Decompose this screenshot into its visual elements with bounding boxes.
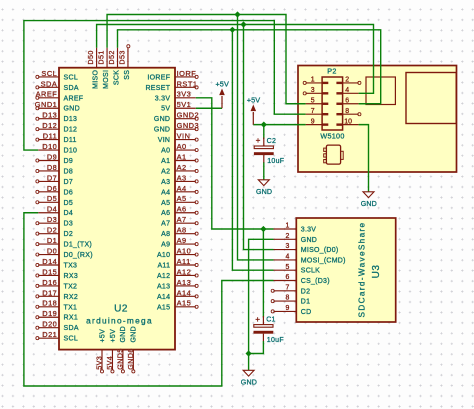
svg-text:3.3V: 3.3V [301,226,316,233]
power GND symbol (C2) [256,180,272,196]
svg-text:W5100: W5100 [320,132,344,141]
power GND symbol (C1/U3 GND) [241,370,257,386]
net label RST1 [177,79,198,88]
net label A15 [177,299,192,308]
wire 3V3: U2 3.3V to U3 pin 1 [196,98,274,229]
svg-text:D52: D52 [107,50,116,64]
U2 left pin D6 [36,189,73,196]
svg-text:D7: D7 [47,173,57,182]
svg-text:A6: A6 [177,205,187,214]
net label 3V3 [177,90,192,99]
svg-text:SCL: SCL [64,74,79,81]
U2 left pin RX3 [36,273,78,280]
P2 pin 8 [336,108,361,116]
svg-text:A5: A5 [177,194,187,203]
U2 right pin A7 [161,221,198,228]
junction D52/SCK [229,27,235,33]
svg-text:8: 8 [285,295,289,302]
svg-text:GND5: GND5 [116,348,125,370]
wire SCK branch to U3 pin 5 [232,30,273,270]
net label A3 [177,173,187,182]
U2 left pin TX3 [36,262,77,269]
svg-text:5: 5 [285,264,289,271]
U2 bottom pin GND2 [120,326,127,373]
svg-text:A3: A3 [177,173,187,182]
svg-text:GND: GND [154,127,170,134]
U3 pin 3 MISO_(D0) [274,243,339,254]
svg-text:SDA: SDA [64,325,79,332]
U2 left pin D0_(RX) [36,252,93,259]
svg-text:3: 3 [311,87,315,94]
svg-text:9: 9 [311,118,315,125]
net label A4 [177,184,187,193]
U2 right pin A2 [161,168,198,175]
svg-text:GND: GND [301,237,317,244]
svg-text:D4: D4 [47,205,57,214]
U2 left pin D13 [36,116,77,123]
svg-text:D1: D1 [301,299,310,306]
svg-text:D53: D53 [117,50,126,64]
P2 pin 10 [336,118,358,126]
svg-text:D0: D0 [47,246,57,255]
net label GND6 [126,348,135,370]
svg-text:D3: D3 [64,221,74,228]
U3 pin 2 GND [274,233,318,244]
svg-text:6: 6 [345,97,349,104]
P2 reference P2 [327,66,337,75]
svg-text:A4: A4 [177,184,187,193]
svg-text:D2: D2 [301,288,310,295]
net label D51 [96,50,105,64]
U3 pin 6 CS_(D3) [274,274,330,285]
svg-text:D16: D16 [42,278,57,287]
svg-text:A1: A1 [177,152,187,161]
net label D17 [42,288,57,297]
wire +5V rail to P2 pin 9 [253,124,305,126]
U2 left pin GND [36,106,80,113]
svg-text:D5: D5 [64,200,74,207]
svg-text:10uF: 10uF [267,337,284,344]
U2 right pin A5 [161,200,198,207]
svg-text:SDA: SDA [64,85,79,92]
svg-text:D12: D12 [42,121,57,130]
net label A13 [177,278,192,287]
svg-text:MOSI_(CMD): MOSI_(CMD) [301,257,346,264]
svg-text:RX1: RX1 [64,315,79,322]
wire P2 pin 10 to GND [359,125,369,192]
U3 pin 1 3.3V [274,223,317,234]
svg-text:SCL: SCL [64,336,79,343]
svg-text:GND: GND [256,188,272,196]
U3 pin 8 D1 [271,295,310,306]
wire D51/MOSI: U2 D51 to P2 pin 5 [107,15,306,104]
svg-text:A11: A11 [177,257,191,266]
svg-text:4: 4 [285,254,289,261]
U2 right pin A3 [161,179,198,186]
net label D9 [47,152,57,161]
U2 left pin RX2 [36,294,78,301]
IC U3 SDCard-WaveShare body [296,218,395,322]
U2 bottom pin +5V0 [99,329,106,373]
svg-text:IORF: IORF [177,69,197,78]
svg-text:3V3: 3V3 [177,90,192,99]
U2 reference U2 [114,304,128,315]
net label 5V3 [95,356,104,370]
svg-text:A10: A10 [157,252,170,259]
U2 left pin SCL [36,74,78,81]
U2 left pin D1_(TX) [36,242,92,249]
svg-text:A14: A14 [177,288,192,297]
U2 left pin D10 [38,148,77,155]
svg-text:RST1: RST1 [177,79,198,88]
svg-text:7: 7 [311,108,315,115]
svg-text:D20: D20 [42,320,57,329]
svg-text:D10: D10 [64,148,78,155]
svg-text:MISO: MISO [93,70,100,89]
svg-text:VIN: VIN [177,132,191,141]
svg-text:A12: A12 [177,267,192,276]
W5100 module chip graphic [324,145,344,164]
svg-text:A10: A10 [177,246,192,255]
U2 top pin SS [124,45,131,80]
svg-text:4: 4 [345,87,349,94]
P2 pin 2 [336,77,361,85]
svg-text:U2: U2 [114,304,128,315]
U3 reference U3 [371,265,382,279]
svg-text:A1: A1 [161,158,170,165]
U3 pin 7 D2 [271,284,310,295]
svg-text:7: 7 [285,284,289,291]
net label A10 [177,246,192,255]
net label D52 [107,50,116,64]
U3 value SDCard-WaveShare [357,222,366,318]
U2 left pin SDA [36,85,79,92]
P2 pin 4 [336,87,358,95]
net label D8 [47,163,57,172]
svg-text:arduino-mega: arduino-mega [86,316,153,326]
svg-text:+: + [256,136,261,145]
svg-text:D7: D7 [64,179,74,186]
P2 pin 6 [336,97,358,105]
wire U3 pin 2 GND down [249,239,274,370]
svg-text:GND: GND [154,116,170,123]
U2 right pin A13 [157,283,198,290]
svg-text:9: 9 [285,305,289,312]
svg-text:CS_(D3): CS_(D3) [301,278,330,285]
svg-text:8: 8 [345,108,349,115]
svg-text:GND: GND [241,379,257,387]
svg-text:D19: D19 [42,309,57,318]
svg-text:A14: A14 [157,294,170,301]
svg-text:A4: A4 [161,189,170,196]
U2 right pin A11 [157,262,198,269]
W5100 module large rectangle [406,73,456,124]
svg-text:1: 1 [285,223,289,230]
net label D4 [47,205,57,214]
junction D50/MISO [240,21,246,27]
svg-text:MISO_(D0): MISO_(D0) [301,247,339,254]
U2 right pin A9 [161,242,198,249]
capacitor C1 10uF [254,315,284,344]
svg-text:A2: A2 [177,163,187,172]
wire 5V1 to +5V flag [196,107,222,109]
power +5V flag (5V1) [215,80,229,109]
svg-text:A12: A12 [157,273,170,280]
svg-text:5V: 5V [161,106,170,113]
net label D50 [86,50,95,64]
svg-text:D50: D50 [86,50,95,64]
net label D53 [117,50,126,64]
svg-text:SCK: SCK [114,70,121,85]
svg-text:D2: D2 [47,226,57,235]
U2 left pin D5 [36,200,73,207]
net label D1 [47,236,57,245]
U2 bottom pin GND3 [131,326,138,373]
svg-text:D15: D15 [42,267,57,276]
svg-text:D11: D11 [64,137,77,144]
svg-text:A15: A15 [157,304,170,311]
svg-text:D14: D14 [42,257,57,266]
W5100 module small rectangle [366,77,395,105]
IC U2 arduino-mega body [59,68,175,350]
net label A1 [177,152,187,161]
net label A7 [177,215,187,224]
U2 right pin VIN [158,137,198,144]
P2 pin 7 [306,108,329,116]
svg-text:GND: GND [64,106,80,113]
svg-text:A15: A15 [177,299,192,308]
svg-text:D6: D6 [47,184,57,193]
svg-text:SDA: SDA [41,79,58,88]
svg-text:D2: D2 [64,231,74,238]
svg-text:IOREF: IOREF [147,74,170,81]
svg-text:D1_(TX): D1_(TX) [64,242,93,249]
svg-text:GND6: GND6 [126,348,135,370]
net label D2 [47,226,57,235]
net label D11 [43,132,58,141]
U2 right pin A0 [161,148,198,155]
U2 right pin A12 [157,273,198,280]
svg-text:D3: D3 [47,215,57,224]
svg-text:D21: D21 [42,330,57,339]
svg-text:C2: C2 [267,138,277,145]
svg-text:D11: D11 [43,132,58,141]
U2 left pin D12 [36,127,77,134]
svg-text:A6: A6 [161,210,170,217]
svg-text:D8: D8 [47,163,57,172]
U2 right pin A8 [161,231,198,238]
U2 right pin A4 [161,189,198,196]
net label D6 [47,184,57,193]
svg-text:SCL: SCL [41,69,57,78]
net label AREF [36,90,58,99]
net label 5V4 [105,356,114,370]
svg-text:TX1: TX1 [64,304,78,311]
svg-text:D10: D10 [42,142,57,151]
U2 right pin A1 [161,158,198,165]
junction D51/MOSI [234,11,240,17]
svg-text:5V4: 5V4 [105,356,114,370]
U2 left pin D2 [36,231,73,238]
U2 right pin 5V [161,106,196,113]
U2 right pin 3.3V [155,95,196,102]
wire MISO branch to U3 pin 3 [244,25,274,250]
U2 left pin SDA [36,325,79,332]
U2 right pin GND [154,127,198,134]
svg-text:A0: A0 [161,148,170,155]
net label D0 [47,246,57,255]
net label D18 [42,299,57,308]
svg-text:A13: A13 [157,283,170,290]
svg-text:10uF: 10uF [267,158,284,165]
svg-text:SDCard-WaveShare: SDCard-WaveShare [357,222,366,318]
P2 pin 3 [303,87,328,95]
svg-text:RX2: RX2 [64,294,79,301]
U2 right pin A14 [157,294,198,301]
wire C1 bottom [249,341,264,354]
svg-text:10: 10 [344,118,352,125]
svg-text:D18: D18 [42,299,57,308]
net label D5 [47,194,57,203]
net label GND1 [35,100,58,109]
svg-text:TX2: TX2 [64,283,78,290]
U2 right pin A6 [161,210,198,217]
svg-text:6: 6 [285,274,289,281]
net label A14 [177,288,192,297]
junction 3V3/C1 [260,226,266,232]
wire C1 top [262,229,264,318]
junction +5V/C2 [261,122,267,128]
svg-text:A5: A5 [161,200,170,207]
svg-text:RX3: RX3 [64,273,79,280]
U2 left pin D4 [38,210,73,217]
svg-text:A8: A8 [177,226,187,235]
net label SDA [41,79,58,88]
W5100 ethernet module outline [298,66,457,173]
svg-text:D5: D5 [47,194,57,203]
svg-text:GND: GND [361,200,377,208]
svg-text:GND: GND [131,326,138,342]
U2 right pin GND [154,116,198,123]
svg-text:C1: C1 [266,316,276,323]
net label A8 [177,226,187,235]
U2 right pin A10 [157,252,198,259]
svg-text:TX3: TX3 [64,262,78,269]
svg-text:A2: A2 [161,168,170,175]
U2 left pin AREF [36,95,84,102]
svg-text:D17: D17 [42,288,57,297]
connector P2 body [322,77,343,130]
wire D4/CS: U2 D4 to U3 pin 6 [24,213,274,386]
net label D19 [42,309,57,318]
wire C2 bottom to GND [263,162,265,180]
svg-text:D4: D4 [64,210,74,217]
net label D7 [47,173,57,182]
net label A0 [177,142,187,151]
U2 top pin MOSI [103,48,110,89]
svg-text:D13: D13 [64,116,78,123]
wire C2 top [263,125,265,139]
net label A6 [177,205,187,214]
svg-text:U3: U3 [371,265,382,279]
power GND symbol (P2 pin 10) [361,192,377,208]
U3 pin 4 MOSI_(CMD) [274,254,346,265]
svg-text:A3: A3 [161,179,170,186]
svg-text:D1: D1 [47,236,57,245]
svg-text:A11: A11 [157,262,170,269]
P2 value W5100 [320,132,344,141]
U2 left pin D9 [36,158,73,165]
net label A9 [177,236,187,245]
svg-text:GND1: GND1 [35,100,58,109]
svg-text:A9: A9 [177,236,187,245]
svg-text:D12: D12 [64,127,78,134]
svg-text:D13: D13 [42,111,57,120]
U2 right pin RESET [145,85,198,92]
P2 pin 9 [306,118,329,126]
svg-text:D51: D51 [96,50,105,64]
net label GND5 [116,348,125,370]
U2 left pin D3 [36,221,73,228]
net label A12 [177,267,192,276]
svg-text:SCLK: SCLK [301,268,320,275]
wire D50/MISO: U2 D50 to P2 pin 4 [97,25,374,94]
svg-text:+5V: +5V [110,329,117,343]
net label D14 [42,257,57,266]
net label D21 [42,330,57,339]
U2 left pin D8 [36,168,73,175]
U3 pin 9 CD [271,305,311,316]
svg-text:5: 5 [311,97,315,104]
U2 left pin RX1 [36,315,78,322]
U2 top pin MISO [93,48,100,89]
capacitor C2 10uF [254,136,284,165]
wire D52/SCK: U2 D52 to P2 pin 6 [118,30,381,104]
net label IORF [177,69,197,78]
svg-text:D9: D9 [64,158,74,165]
U3 pin 5 SCLK [274,264,321,275]
svg-text:A13: A13 [177,278,192,287]
svg-text:5V3: 5V3 [95,356,104,370]
svg-text:VIN: VIN [158,137,171,144]
net label D3 [47,215,57,224]
svg-text:2: 2 [285,233,289,240]
net label D12 [42,121,57,130]
svg-text:+5V: +5V [247,96,261,105]
svg-text:AREF: AREF [64,95,84,102]
svg-text:+5V: +5V [215,80,229,89]
svg-text:GND3: GND3 [177,121,200,130]
net label D20 [42,320,57,329]
svg-text:+5V: +5V [99,329,106,343]
net label A2 [177,163,187,172]
svg-text:2: 2 [345,77,349,84]
U2 top pin SCK [114,48,121,85]
U2 right pin IOREF [147,74,198,81]
svg-text:A0: A0 [177,142,187,151]
net label VIN [177,132,191,141]
svg-text:P2: P2 [327,66,337,75]
U2 value arduino-mega [86,316,153,326]
svg-text:1: 1 [311,77,315,84]
net label A11 [177,257,191,266]
net label GND2 [177,111,200,120]
svg-text:SS: SS [124,70,131,80]
U2 bottom pin +5V1 [110,329,117,373]
svg-text:A7: A7 [177,215,187,224]
U2 left pin SCL [36,336,78,343]
U2 left pin D7 [36,179,73,186]
